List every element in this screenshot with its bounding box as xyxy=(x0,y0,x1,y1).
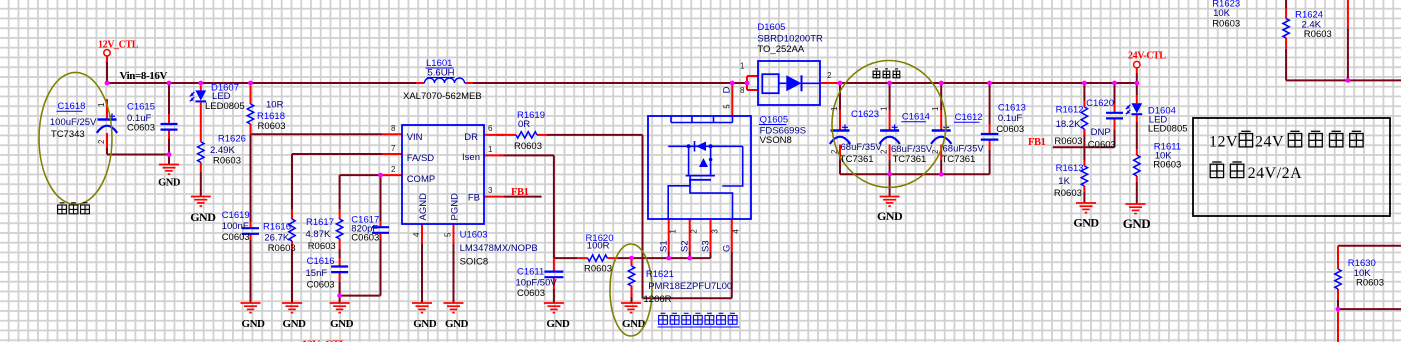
svg-text:12V_CTL: 12V_CTL xyxy=(98,40,139,51)
svg-text:FB1: FB1 xyxy=(511,187,529,198)
svg-text:24V/2A: 24V/2A xyxy=(1248,165,1303,182)
svg-text:68uF/35V: 68uF/35V xyxy=(841,142,883,153)
svg-text:GND: GND xyxy=(546,318,570,330)
svg-text:C0603: C0603 xyxy=(517,288,545,299)
svg-text:TC7361: TC7361 xyxy=(893,154,927,165)
svg-text:S2: S2 xyxy=(680,240,691,252)
svg-text:GND: GND xyxy=(1123,216,1151,231)
svg-text:GND: GND xyxy=(330,318,354,330)
svg-text:R0603: R0603 xyxy=(308,241,336,252)
svg-text:2: 2 xyxy=(879,149,888,154)
svg-text:R0603: R0603 xyxy=(1054,188,1082,199)
svg-text:26.7K: 26.7K xyxy=(264,233,289,244)
svg-text:1K: 1K xyxy=(1058,176,1070,187)
svg-text:24V: 24V xyxy=(1255,133,1284,150)
svg-text:D1605: D1605 xyxy=(757,22,785,33)
svg-text:Vin=8-16V: Vin=8-16V xyxy=(120,70,168,82)
svg-text:FB1: FB1 xyxy=(1028,137,1046,148)
svg-text:SOIC8: SOIC8 xyxy=(460,257,489,268)
svg-text:100R: 100R xyxy=(587,241,610,252)
svg-text:C0603: C0603 xyxy=(307,280,335,291)
svg-text:15nF: 15nF xyxy=(306,268,328,279)
svg-text:S3: S3 xyxy=(700,240,711,252)
svg-text:4: 4 xyxy=(732,229,741,234)
svg-text:2: 2 xyxy=(391,165,396,174)
svg-text:R0603: R0603 xyxy=(1356,278,1384,289)
svg-text:100uF/25V: 100uF/25V xyxy=(50,117,97,128)
svg-text:2: 2 xyxy=(690,229,699,234)
svg-text:VIN: VIN xyxy=(407,132,423,143)
svg-text:10R: 10R xyxy=(266,100,284,111)
svg-text:TC7343: TC7343 xyxy=(51,129,85,140)
svg-text:R0603: R0603 xyxy=(584,264,612,275)
svg-text:GND: GND xyxy=(242,318,266,330)
svg-text:4.87K: 4.87K xyxy=(306,229,331,240)
svg-text:1: 1 xyxy=(97,102,106,107)
svg-text:1: 1 xyxy=(931,106,940,111)
svg-text:1: 1 xyxy=(830,106,839,111)
svg-text:R0603: R0603 xyxy=(514,141,542,152)
svg-text:2: 2 xyxy=(827,71,832,80)
svg-text:U1603: U1603 xyxy=(460,230,488,241)
svg-text:5.6UH: 5.6UH xyxy=(428,68,455,79)
svg-text:1206R: 1206R xyxy=(644,294,672,305)
svg-text:C0603: C0603 xyxy=(222,232,250,243)
svg-text:Isen: Isen xyxy=(462,152,480,163)
svg-text:R0603: R0603 xyxy=(1054,136,1082,147)
svg-text:C0603: C0603 xyxy=(996,124,1024,135)
svg-text:R0603: R0603 xyxy=(1304,29,1332,40)
svg-text:R0603: R0603 xyxy=(1153,160,1181,171)
svg-text:C1615: C1615 xyxy=(127,102,155,113)
svg-text:24V-CTL: 24V-CTL xyxy=(1128,51,1166,62)
svg-text:2.49K: 2.49K xyxy=(210,145,235,156)
svg-text:TC7361: TC7361 xyxy=(840,154,874,165)
svg-text:LED0805: LED0805 xyxy=(1148,124,1188,135)
svg-text:DR: DR xyxy=(464,132,478,143)
svg-text:C1611: C1611 xyxy=(517,267,544,278)
svg-text:VSON8: VSON8 xyxy=(760,135,792,146)
svg-text:GND: GND xyxy=(445,318,469,330)
svg-text:6: 6 xyxy=(488,124,493,133)
svg-text:PMR18EZPFU7L00: PMR18EZPFU7L00 xyxy=(648,281,732,292)
svg-text:D: D xyxy=(722,86,733,93)
svg-text:R0603: R0603 xyxy=(213,156,241,167)
svg-text:C0603: C0603 xyxy=(1088,140,1116,151)
svg-text:18.2K: 18.2K xyxy=(1056,119,1081,130)
svg-text:4: 4 xyxy=(412,232,421,237)
svg-text:C1620: C1620 xyxy=(1086,98,1114,109)
svg-text:C1616: C1616 xyxy=(307,256,335,267)
svg-text:1: 1 xyxy=(879,106,888,111)
svg-text:R1613: R1613 xyxy=(1056,163,1084,174)
svg-text:2: 2 xyxy=(97,139,106,144)
svg-text:12V: 12V xyxy=(1209,133,1238,150)
svg-text:7: 7 xyxy=(391,144,396,153)
svg-text:R1612: R1612 xyxy=(1056,105,1084,116)
svg-text:C0603: C0603 xyxy=(351,233,379,244)
svg-text:SBRD10200TR: SBRD10200TR xyxy=(757,34,823,45)
svg-text:C1613: C1613 xyxy=(998,103,1026,114)
svg-text:3: 3 xyxy=(488,186,493,195)
svg-text:1: 1 xyxy=(740,61,745,70)
svg-text:TO_252AA: TO_252AA xyxy=(757,44,804,55)
svg-text:R1621: R1621 xyxy=(646,269,674,280)
svg-text:FB: FB xyxy=(468,193,480,204)
svg-text:2: 2 xyxy=(931,149,940,154)
svg-text:0.1uF: 0.1uF xyxy=(998,113,1022,124)
svg-text:2: 2 xyxy=(830,149,839,154)
svg-text:PGND: PGND xyxy=(449,193,460,221)
svg-text:COMP: COMP xyxy=(407,174,436,185)
svg-text:LED0805: LED0805 xyxy=(205,101,245,112)
svg-text:LM3478MX/NOPB: LM3478MX/NOPB xyxy=(460,243,538,254)
svg-text:TC7361: TC7361 xyxy=(942,154,976,165)
svg-text:R1626: R1626 xyxy=(218,134,246,145)
svg-text:Q1605: Q1605 xyxy=(760,114,789,125)
svg-text:1: 1 xyxy=(669,229,678,234)
svg-text:100nF: 100nF xyxy=(222,221,249,232)
svg-text:GND: GND xyxy=(283,318,307,330)
svg-text:3: 3 xyxy=(710,229,719,234)
svg-text:GND: GND xyxy=(158,178,181,189)
svg-text:R1617: R1617 xyxy=(306,217,334,228)
svg-text:R1616: R1616 xyxy=(263,222,291,233)
svg-text:GND: GND xyxy=(190,210,216,224)
svg-text:C1618: C1618 xyxy=(57,101,85,112)
svg-text:R0603: R0603 xyxy=(1212,18,1240,29)
svg-text:C0603: C0603 xyxy=(127,123,155,134)
svg-text:C1614: C1614 xyxy=(902,112,930,123)
svg-text:1: 1 xyxy=(488,145,493,154)
svg-text:S1: S1 xyxy=(659,240,670,252)
svg-text:C1619: C1619 xyxy=(222,210,250,221)
svg-text:C1612: C1612 xyxy=(955,112,983,123)
svg-text:DNP: DNP xyxy=(1091,127,1111,138)
svg-text:C1623: C1623 xyxy=(851,109,879,120)
svg-text:5: 5 xyxy=(444,232,453,237)
svg-text:8: 8 xyxy=(391,124,396,133)
svg-text:8: 8 xyxy=(740,86,745,95)
svg-text:68uF/35V: 68uF/35V xyxy=(943,144,985,155)
svg-text:R0603: R0603 xyxy=(258,121,286,132)
svg-text:12V_CTL: 12V_CTL xyxy=(302,339,346,342)
svg-text:G: G xyxy=(722,245,733,252)
svg-text:GND: GND xyxy=(1073,216,1099,230)
svg-text:XAL7070-562MEB: XAL7070-562MEB xyxy=(403,91,482,102)
svg-text:R0603: R0603 xyxy=(268,243,296,254)
svg-text:GND: GND xyxy=(413,318,437,330)
svg-text:0R: 0R xyxy=(518,119,530,130)
svg-text:FA/SD: FA/SD xyxy=(407,153,435,164)
svg-text:GND: GND xyxy=(877,209,903,223)
svg-text:AGND: AGND xyxy=(418,193,429,221)
svg-text:10pF/50V: 10pF/50V xyxy=(516,278,558,289)
svg-text:5: 5 xyxy=(723,104,732,109)
